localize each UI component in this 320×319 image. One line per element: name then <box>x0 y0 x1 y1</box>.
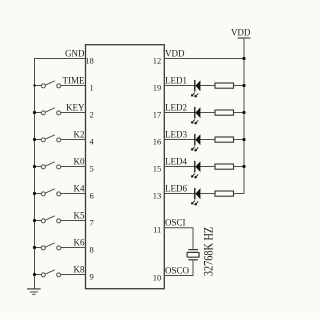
resistor R3 <box>215 137 234 142</box>
svg-text:K5: K5 <box>74 211 85 221</box>
wire GND row pin 18 <box>34 58 86 60</box>
svg-text:19: 19 <box>153 83 162 93</box>
svg-text:10: 10 <box>153 273 162 283</box>
svg-text:2: 2 <box>90 110 94 120</box>
junction dot K5 <box>33 219 36 222</box>
resistor R2 <box>215 110 234 115</box>
junction dot K0 <box>33 165 36 168</box>
switch S6 K5 row <box>34 216 86 223</box>
wire pin 12 VDD row <box>164 58 244 60</box>
svg-text:K8: K8 <box>74 265 85 275</box>
switch S2 KEY row <box>34 108 86 115</box>
junction dot K8 <box>33 273 36 276</box>
wire OSCO pin 10 <box>164 260 193 276</box>
svg-text:OSCO: OSCO <box>165 266 190 276</box>
LED D2 <box>191 107 200 124</box>
wire left GND bus vertical <box>34 59 36 289</box>
wire resistor R1 to bus <box>234 85 245 87</box>
svg-text:7: 7 <box>90 218 94 228</box>
svg-text:8: 8 <box>90 245 94 255</box>
svg-text:LED1: LED1 <box>165 76 187 86</box>
junction dot LED3 row <box>242 138 245 141</box>
switch S1 TIME row <box>34 81 86 88</box>
svg-text:9: 9 <box>90 272 94 282</box>
value label 32768K HZ <box>201 227 215 276</box>
svg-text:18: 18 <box>85 56 94 66</box>
wire LED6 to resistor <box>200 193 215 195</box>
resistor R4 <box>215 164 234 169</box>
resistor R1 <box>215 83 234 88</box>
wire LED2 to resistor <box>200 112 215 114</box>
junction dot LED4 row <box>242 165 245 168</box>
wire LED4 to resistor <box>200 166 215 168</box>
wire resistor R3 to bus <box>234 139 245 141</box>
wire OSCI pin 11 <box>164 228 193 250</box>
svg-text:LED4: LED4 <box>165 157 187 167</box>
power VDD symbol <box>231 27 251 38</box>
LED row 4 : wire pin 15 <box>164 166 195 168</box>
switch S3 K2 row <box>34 135 86 142</box>
IC U1 body <box>86 45 165 289</box>
svg-text:16: 16 <box>153 137 162 147</box>
svg-text:GND: GND <box>65 48 85 58</box>
svg-text:5: 5 <box>90 164 94 174</box>
svg-text:OSCI: OSCI <box>165 218 186 228</box>
junction dot K2 <box>33 138 36 141</box>
svg-text:LED2: LED2 <box>165 103 187 113</box>
svg-text:32768K HZ: 32768K HZ <box>201 227 215 276</box>
svg-text:K2: K2 <box>74 130 85 140</box>
junction dot LED1 row <box>242 84 245 87</box>
switch S5 K4 row <box>34 189 86 196</box>
svg-text:K4: K4 <box>74 184 85 194</box>
LED D3 <box>191 134 200 151</box>
wire resistor R5 to bus <box>234 193 245 195</box>
LED D4 <box>191 161 200 178</box>
junction dot VDD row <box>242 57 245 60</box>
svg-text:VDD: VDD <box>165 48 185 58</box>
svg-text:KEY: KEY <box>66 103 85 113</box>
svg-text:13: 13 <box>153 191 162 201</box>
svg-text:VDD: VDD <box>231 27 251 37</box>
svg-text:TIME: TIME <box>63 76 85 86</box>
svg-text:K0: K0 <box>74 157 85 167</box>
switch S4 K0 row <box>34 162 86 169</box>
junction dot LED2 row <box>242 111 245 114</box>
switch S8 K8 row <box>34 270 86 277</box>
junction dot K6 <box>33 246 36 249</box>
switch S7 K6 row <box>34 243 86 250</box>
ground <box>27 289 40 295</box>
junction dot KEY <box>33 111 36 114</box>
svg-text:K6: K6 <box>74 238 85 248</box>
svg-text:11: 11 <box>153 225 161 235</box>
junction dot TIME <box>33 84 35 86</box>
LED row 2 : wire pin 17 <box>164 112 195 114</box>
svg-text:17: 17 <box>153 110 162 120</box>
svg-text:LED6: LED6 <box>165 184 187 194</box>
LED D6 <box>191 188 200 205</box>
svg-text:4: 4 <box>90 137 95 147</box>
svg-text:15: 15 <box>153 164 162 174</box>
wire LED3 to resistor <box>200 139 215 141</box>
svg-text:12: 12 <box>153 56 162 66</box>
LED row 5 : wire pin 13 <box>164 193 195 195</box>
wire resistor R4 to bus <box>234 166 245 168</box>
junction dot K4 <box>33 192 36 195</box>
LED D1 <box>191 80 200 97</box>
svg-text:1: 1 <box>90 83 94 93</box>
svg-text:LED3: LED3 <box>165 130 187 140</box>
wire LED1 to resistor <box>200 85 215 87</box>
resistor R5 <box>215 191 234 196</box>
LED row 1 : wire pin 19 <box>164 85 195 87</box>
LED row 3 : wire pin 16 <box>164 139 195 141</box>
crystal Y1 <box>187 250 199 260</box>
wire VDD bus vertical <box>243 38 245 194</box>
wire resistor R2 to bus <box>234 112 245 114</box>
svg-text:6: 6 <box>90 191 94 201</box>
